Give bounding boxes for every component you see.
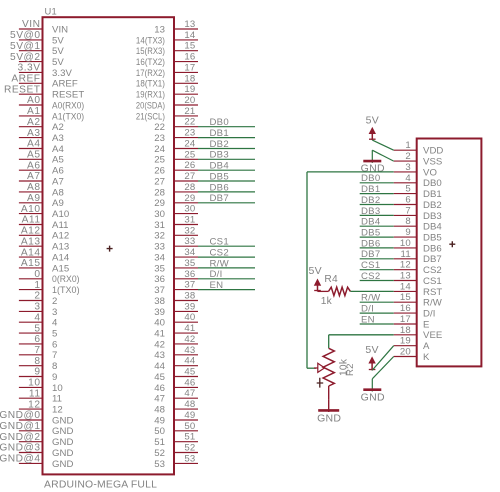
LCD pin 8 DB4 stub and labels bbox=[394, 216, 443, 232]
svg-text:32: 32 bbox=[154, 231, 165, 242]
svg-text:5V@0: 5V@0 bbox=[10, 30, 40, 41]
svg-text:R/W: R/W bbox=[210, 258, 230, 269]
svg-text:2: 2 bbox=[52, 296, 57, 307]
svg-text:46: 46 bbox=[184, 377, 195, 388]
pin 37 (right) stub and labels bbox=[154, 280, 198, 296]
svg-text:15(RX3): 15(RX3) bbox=[136, 46, 165, 57]
svg-text:17: 17 bbox=[400, 314, 411, 325]
svg-text:EN: EN bbox=[361, 314, 375, 325]
wire net CS1 from U1 pin 33 bbox=[198, 237, 255, 248]
svg-text:42: 42 bbox=[154, 339, 165, 350]
wire net D/I to LCD pin 16 bbox=[360, 304, 394, 315]
svg-text:33: 33 bbox=[184, 236, 195, 247]
svg-text:16: 16 bbox=[400, 303, 411, 314]
svg-text:2: 2 bbox=[34, 291, 40, 302]
pin 21 (right) stub and labels bbox=[136, 106, 198, 122]
svg-text:13: 13 bbox=[154, 24, 165, 35]
LCD pin 2 VSS stub and labels bbox=[394, 151, 443, 167]
pin A4 (left row 12) wire and labels bbox=[19, 139, 65, 155]
svg-text:28: 28 bbox=[154, 187, 165, 198]
pin 19 (right) stub and labels bbox=[136, 84, 198, 100]
pin 10 (left row 34) wire and labels bbox=[19, 378, 63, 394]
pin A1(TX0) (left row 9) wire and labels bbox=[19, 106, 84, 122]
svg-text:DB5: DB5 bbox=[210, 171, 229, 182]
svg-text:49: 49 bbox=[184, 410, 195, 421]
svg-text:5V: 5V bbox=[52, 35, 64, 46]
svg-text:1: 1 bbox=[405, 140, 411, 151]
svg-text:AREF: AREF bbox=[52, 79, 78, 90]
svg-text:GND@1: GND@1 bbox=[0, 421, 41, 432]
svg-text:30: 30 bbox=[154, 209, 165, 220]
svg-text:D/I: D/I bbox=[361, 304, 374, 315]
svg-text:7: 7 bbox=[52, 350, 57, 361]
svg-text:52: 52 bbox=[154, 448, 165, 459]
svg-text:5V@2: 5V@2 bbox=[10, 52, 40, 63]
svg-text:A4: A4 bbox=[52, 144, 64, 155]
svg-text:DB2: DB2 bbox=[423, 200, 442, 211]
LCD pin 14 RST stub and labels bbox=[394, 281, 443, 297]
svg-text:6: 6 bbox=[34, 334, 40, 345]
svg-text:A2: A2 bbox=[27, 117, 40, 128]
pin 36 (right) stub and labels bbox=[154, 269, 198, 285]
pin 26 (right) stub and labels bbox=[154, 160, 198, 176]
svg-text:30: 30 bbox=[184, 204, 195, 215]
svg-text:45: 45 bbox=[184, 367, 195, 378]
svg-text:17(RX2): 17(RX2) bbox=[136, 68, 165, 79]
pin 29 (right) stub and labels bbox=[154, 193, 198, 209]
svg-text:41: 41 bbox=[184, 323, 195, 334]
origin cross U1 bbox=[107, 246, 113, 252]
svg-text:18: 18 bbox=[400, 325, 411, 336]
svg-text:A1(TX0): A1(TX0) bbox=[52, 111, 84, 122]
svg-text:39: 39 bbox=[154, 307, 165, 318]
pin RESET (left row 7) wire and labels bbox=[4, 84, 84, 100]
svg-text:GND: GND bbox=[52, 459, 73, 470]
pin 46 (right) stub and labels bbox=[154, 377, 198, 393]
svg-text:A14: A14 bbox=[21, 247, 41, 258]
pin 38 (right) stub and labels bbox=[154, 291, 198, 307]
svg-text:DB7: DB7 bbox=[361, 249, 380, 260]
svg-text:RESET: RESET bbox=[4, 84, 40, 95]
wire net DB4 to LCD pin 8 bbox=[360, 217, 394, 228]
svg-text:A9: A9 bbox=[27, 193, 40, 204]
pin 52 (right) stub and labels bbox=[154, 443, 198, 459]
pin AREF (left row 6) wire and labels bbox=[11, 74, 78, 90]
svg-text:VO: VO bbox=[423, 167, 437, 178]
svg-text:A0(RX0): A0(RX0) bbox=[52, 100, 84, 111]
LCD pin 15 R/W stub and labels bbox=[394, 292, 443, 308]
pin A5 (left row 13) wire and labels bbox=[19, 150, 64, 166]
svg-text:43: 43 bbox=[154, 350, 165, 361]
pin 20 (right) stub and labels bbox=[136, 95, 198, 111]
svg-text:22: 22 bbox=[154, 122, 165, 133]
svg-text:DB6: DB6 bbox=[361, 238, 380, 249]
svg-text:8: 8 bbox=[34, 356, 40, 367]
svg-text:A6: A6 bbox=[27, 160, 40, 171]
LCD pin 19 A stub and labels bbox=[394, 336, 430, 352]
svg-text:GND: GND bbox=[52, 426, 73, 437]
svg-text:53: 53 bbox=[154, 459, 165, 470]
pin A14 (left row 22) wire and labels bbox=[19, 247, 70, 263]
svg-text:21: 21 bbox=[184, 106, 195, 117]
svg-text:5V: 5V bbox=[52, 46, 64, 57]
svg-text:22: 22 bbox=[184, 117, 195, 128]
wire net DB1 to LCD pin 5 bbox=[360, 184, 394, 195]
wire net R/W to LCD pin 15 bbox=[360, 293, 394, 304]
pin 25 (right) stub and labels bbox=[154, 149, 198, 165]
svg-text:A6: A6 bbox=[52, 166, 64, 177]
wire net DB1 from U1 pin 23 bbox=[198, 128, 255, 139]
svg-text:34: 34 bbox=[184, 247, 196, 258]
pin 12 (left row 36) wire and labels bbox=[19, 399, 63, 415]
pin 35 (right) stub and labels bbox=[154, 258, 198, 274]
pin 44 (right) stub and labels bbox=[154, 356, 198, 372]
svg-text:A15: A15 bbox=[52, 263, 69, 274]
pin 43 (right) stub and labels bbox=[154, 345, 198, 361]
LCD pin 6 DB2 stub and labels bbox=[394, 195, 442, 211]
svg-text:A7: A7 bbox=[27, 171, 40, 182]
svg-text:40: 40 bbox=[184, 312, 195, 323]
pin 2 (left row 26) wire and labels bbox=[19, 291, 57, 307]
svg-text:GND@0: GND@0 bbox=[0, 410, 41, 421]
pin A8 (left row 16) wire and labels bbox=[19, 182, 64, 198]
svg-text:5V: 5V bbox=[366, 115, 379, 127]
LCD module connector body bbox=[417, 139, 482, 367]
svg-text:A0: A0 bbox=[27, 95, 40, 106]
svg-text:10: 10 bbox=[400, 238, 411, 249]
pin 49 (right) stub and labels bbox=[154, 410, 198, 426]
svg-text:GND: GND bbox=[52, 437, 73, 448]
svg-text:15: 15 bbox=[400, 292, 411, 303]
wire net DB7 from U1 pin 29 bbox=[198, 193, 255, 204]
svg-text:DB1: DB1 bbox=[423, 189, 442, 200]
svg-text:16: 16 bbox=[184, 52, 195, 63]
origin cross LCD bbox=[449, 241, 455, 247]
svg-text:CS1: CS1 bbox=[361, 260, 380, 271]
svg-text:10: 10 bbox=[28, 378, 40, 389]
pin 53 (right) stub and labels bbox=[154, 453, 198, 469]
svg-text:14: 14 bbox=[184, 30, 196, 41]
svg-text:39: 39 bbox=[184, 301, 195, 312]
svg-text:VDD: VDD bbox=[423, 146, 443, 157]
pin 4 (left row 28) wire and labels bbox=[19, 312, 58, 328]
svg-text:GND: GND bbox=[317, 412, 341, 424]
pin 42 (right) stub and labels bbox=[154, 334, 198, 350]
svg-text:26: 26 bbox=[154, 166, 165, 177]
svg-text:20(SDA): 20(SDA) bbox=[136, 100, 165, 111]
pin 18 (right) stub and labels bbox=[136, 73, 198, 89]
svg-text:33: 33 bbox=[154, 242, 165, 253]
wire net DB2 to LCD pin 6 bbox=[360, 195, 394, 206]
svg-text:A1: A1 bbox=[27, 106, 40, 117]
LCD pin 5 DB1 stub and labels bbox=[394, 184, 442, 200]
ground GND below R2 bbox=[317, 400, 341, 425]
ground GND at LCD pin 20 bbox=[361, 379, 385, 404]
svg-text:9: 9 bbox=[52, 372, 57, 383]
pin A13 (left row 21) wire and labels bbox=[19, 236, 69, 252]
pin A7 (left row 15) wire and labels bbox=[19, 171, 64, 187]
svg-text:27: 27 bbox=[184, 171, 195, 182]
svg-text:A11: A11 bbox=[22, 215, 41, 226]
svg-text:14: 14 bbox=[400, 281, 412, 292]
svg-text:8: 8 bbox=[405, 216, 411, 227]
wire net EN from U1 pin 37 bbox=[198, 280, 255, 291]
pin GND (left row 38) wire and labels bbox=[0, 421, 73, 437]
pin GND (left row 40) wire and labels bbox=[0, 443, 73, 459]
pin 23 (right) stub and labels bbox=[154, 128, 198, 144]
svg-text:11: 11 bbox=[401, 249, 411, 260]
svg-text:3: 3 bbox=[34, 302, 40, 313]
svg-text:5V: 5V bbox=[308, 265, 321, 277]
ground GND at LCD pin 2 bbox=[361, 150, 385, 175]
wire net CS2 to LCD pin 13 bbox=[360, 271, 394, 282]
svg-text:1k: 1k bbox=[321, 296, 333, 307]
svg-text:3.3V: 3.3V bbox=[18, 63, 41, 74]
wire 5V to LCD pin 19 A bbox=[372, 346, 394, 371]
pin 3.3V (left row 5) wire and labels bbox=[18, 63, 73, 79]
svg-text:U1: U1 bbox=[45, 5, 57, 16]
wire VEE net from LCD pin 18 to R2 top bbox=[329, 335, 394, 349]
svg-text:18(TX1): 18(TX1) bbox=[136, 79, 165, 90]
svg-text:50: 50 bbox=[154, 426, 165, 437]
svg-text:20: 20 bbox=[400, 347, 411, 358]
svg-text:DB5: DB5 bbox=[361, 228, 380, 239]
wire net DB5 to LCD pin 9 bbox=[360, 228, 394, 239]
svg-text:7: 7 bbox=[34, 345, 40, 356]
LCD pin 4 DB0 stub and labels bbox=[394, 173, 442, 189]
svg-text:45: 45 bbox=[154, 372, 165, 383]
svg-text:16(TX2): 16(TX2) bbox=[136, 57, 165, 68]
pin 22 (right) stub and labels bbox=[154, 117, 198, 133]
svg-text:AREF: AREF bbox=[11, 74, 40, 85]
svg-text:VEE: VEE bbox=[423, 330, 442, 341]
svg-text:19: 19 bbox=[184, 84, 195, 95]
svg-text:DB6: DB6 bbox=[423, 243, 442, 254]
svg-text:DB0: DB0 bbox=[423, 178, 442, 189]
svg-text:36: 36 bbox=[154, 274, 165, 285]
svg-text:A12: A12 bbox=[21, 226, 41, 237]
svg-text:5: 5 bbox=[405, 184, 411, 195]
svg-text:51: 51 bbox=[154, 437, 165, 448]
svg-text:35: 35 bbox=[184, 258, 195, 269]
svg-text:DB5: DB5 bbox=[423, 233, 442, 244]
LCD pin 17 E stub and labels bbox=[394, 314, 430, 330]
svg-text:27: 27 bbox=[154, 176, 165, 187]
svg-text:VSS: VSS bbox=[423, 157, 442, 168]
svg-text:37: 37 bbox=[184, 280, 195, 291]
svg-text:DB4: DB4 bbox=[423, 222, 442, 233]
pin A9 (left row 17) wire and labels bbox=[19, 193, 64, 209]
wire net DB3 to LCD pin 7 bbox=[360, 206, 394, 217]
svg-text:20: 20 bbox=[184, 95, 195, 106]
svg-text:RST: RST bbox=[423, 287, 442, 298]
svg-text:4: 4 bbox=[52, 318, 58, 329]
svg-text:4: 4 bbox=[34, 312, 40, 323]
svg-text:GND@3: GND@3 bbox=[0, 443, 41, 454]
wire LCD pin 20 K to GND bbox=[372, 357, 393, 379]
wire net DB2 from U1 pin 24 bbox=[198, 139, 255, 150]
LCD pin 20 K stub and labels bbox=[394, 347, 430, 363]
LCD pin 3 VO stub and labels bbox=[394, 162, 437, 178]
svg-text:A5: A5 bbox=[27, 150, 40, 161]
svg-text:5V@1: 5V@1 bbox=[10, 41, 40, 52]
svg-text:DB6: DB6 bbox=[210, 182, 229, 193]
svg-text:DB3: DB3 bbox=[361, 206, 380, 217]
svg-text:ARDUINO-MEGA FULL: ARDUINO-MEGA FULL bbox=[44, 480, 157, 491]
svg-text:A3: A3 bbox=[27, 128, 40, 139]
pin A0(RX0) (left row 8) wire and labels bbox=[19, 95, 84, 111]
pin 5V (left row 2) wire and labels bbox=[10, 30, 64, 46]
pin 24 (right) stub and labels bbox=[154, 139, 198, 155]
svg-text:36: 36 bbox=[184, 269, 195, 280]
wire net EN to LCD pin 17 bbox=[360, 314, 394, 325]
LCD pin 16 D/I stub and labels bbox=[394, 303, 436, 319]
IC U1 ARDUINO-MEGA FULL main body bbox=[43, 17, 175, 474]
resistor R2 potentiometer 10k bbox=[314, 348, 356, 387]
svg-text:DB2: DB2 bbox=[361, 195, 380, 206]
wire net R/W from U1 pin 35 bbox=[198, 258, 255, 269]
svg-text:A9: A9 bbox=[52, 198, 64, 209]
wire net DB7 to LCD pin 11 bbox=[360, 249, 394, 260]
svg-text:12: 12 bbox=[400, 260, 411, 271]
wire R2 bottom to ground bbox=[328, 386, 330, 400]
svg-text:5: 5 bbox=[34, 323, 40, 334]
svg-text:A13: A13 bbox=[52, 242, 69, 253]
svg-text:GND@2: GND@2 bbox=[0, 432, 41, 443]
pin 5V (left row 3) wire and labels bbox=[10, 41, 64, 57]
svg-text:A13: A13 bbox=[21, 236, 41, 247]
svg-text:44: 44 bbox=[184, 356, 196, 367]
svg-text:29: 29 bbox=[184, 193, 195, 204]
pin GND (left row 39) wire and labels bbox=[0, 432, 73, 448]
pin 32 (right) stub and labels bbox=[154, 225, 198, 241]
svg-text:29: 29 bbox=[154, 198, 165, 209]
svg-text:1: 1 bbox=[34, 280, 40, 291]
wire VO net from LCD pin 3 to R2 wiper bbox=[307, 172, 394, 368]
svg-text:A7: A7 bbox=[52, 176, 64, 187]
svg-text:13: 13 bbox=[400, 271, 411, 282]
pin 41 (right) stub and labels bbox=[154, 323, 198, 339]
LCD pin 18 VEE stub and labels bbox=[394, 325, 443, 341]
pin 5 (left row 29) wire and labels bbox=[19, 323, 57, 339]
svg-text:DB4: DB4 bbox=[210, 161, 230, 172]
LCD pin 13 CS1 stub and labels bbox=[394, 271, 442, 287]
svg-text:34: 34 bbox=[154, 253, 165, 264]
pin 31 (right) stub and labels bbox=[154, 215, 198, 231]
pin 3 (left row 27) wire and labels bbox=[19, 302, 57, 318]
pin 11 (left row 35) wire and labels bbox=[19, 388, 62, 404]
svg-text:DB3: DB3 bbox=[210, 150, 229, 161]
LCD pin 10 DB6 stub and labels bbox=[394, 238, 442, 254]
svg-text:5V: 5V bbox=[365, 344, 378, 356]
svg-text:18: 18 bbox=[184, 73, 195, 84]
supply +5V symbol at LCD pin 1 bbox=[366, 115, 379, 141]
svg-text:A12: A12 bbox=[52, 231, 69, 242]
pin GND (left row 41) wire and labels bbox=[0, 454, 73, 470]
pin 39 (right) stub and labels bbox=[154, 301, 198, 317]
svg-text:31: 31 bbox=[154, 220, 165, 231]
wire net DB3 from U1 pin 25 bbox=[198, 150, 255, 161]
pin 33 (right) stub and labels bbox=[154, 236, 198, 252]
svg-text:A10: A10 bbox=[21, 204, 41, 215]
svg-text:DB3: DB3 bbox=[423, 211, 442, 222]
svg-text:13: 13 bbox=[184, 19, 195, 30]
svg-text:CS2: CS2 bbox=[423, 265, 442, 276]
pin 14 (right) stub and labels bbox=[136, 30, 198, 46]
pin 45 (right) stub and labels bbox=[154, 367, 198, 383]
svg-text:19(RX1): 19(RX1) bbox=[136, 90, 165, 101]
pin 1(TX0) (left row 25) wire and labels bbox=[19, 280, 80, 296]
svg-text:42: 42 bbox=[184, 334, 195, 345]
svg-text:0: 0 bbox=[34, 269, 40, 280]
svg-text:3: 3 bbox=[52, 307, 57, 318]
svg-text:25: 25 bbox=[154, 155, 165, 166]
wire net CS1 to LCD pin 12 bbox=[360, 260, 394, 271]
svg-text:A5: A5 bbox=[52, 155, 64, 166]
svg-text:R/W: R/W bbox=[423, 298, 443, 309]
pin 50 (right) stub and labels bbox=[154, 421, 198, 437]
svg-text:3: 3 bbox=[405, 162, 411, 173]
svg-text:37: 37 bbox=[154, 285, 165, 296]
svg-text:5V: 5V bbox=[52, 57, 64, 68]
svg-text:51: 51 bbox=[184, 432, 195, 443]
svg-text:A14: A14 bbox=[52, 253, 70, 264]
pin 5V (left row 4) wire and labels bbox=[10, 52, 64, 68]
pin 17 (right) stub and labels bbox=[136, 62, 198, 78]
svg-text:A10: A10 bbox=[52, 209, 69, 220]
pin 16 (right) stub and labels bbox=[136, 52, 198, 68]
supply +5V symbol at LCD pin 19 bbox=[365, 344, 378, 370]
svg-text:7: 7 bbox=[405, 205, 411, 216]
svg-text:DB1: DB1 bbox=[210, 128, 229, 139]
svg-text:GND@4: GND@4 bbox=[0, 454, 41, 465]
svg-text:9: 9 bbox=[34, 367, 40, 378]
svg-text:9: 9 bbox=[405, 227, 411, 238]
svg-text:A3: A3 bbox=[52, 133, 64, 144]
svg-text:50: 50 bbox=[184, 421, 195, 432]
svg-text:19: 19 bbox=[400, 336, 411, 347]
svg-text:GND: GND bbox=[361, 391, 385, 403]
svg-text:41: 41 bbox=[154, 329, 165, 340]
pin A11 (left row 19) wire and labels bbox=[19, 215, 69, 231]
pin 6 (left row 30) wire and labels bbox=[19, 334, 57, 350]
pin 40 (right) stub and labels bbox=[154, 312, 198, 328]
wire net DB5 from U1 pin 27 bbox=[198, 171, 255, 182]
svg-text:RESET: RESET bbox=[52, 90, 84, 101]
svg-text:DB2: DB2 bbox=[210, 139, 229, 150]
pin 15 (right) stub and labels bbox=[136, 41, 198, 57]
svg-text:38: 38 bbox=[154, 296, 165, 307]
wire 5V to LCD pin 1 bbox=[372, 140, 393, 150]
svg-text:5: 5 bbox=[52, 329, 57, 340]
svg-text:A4: A4 bbox=[27, 139, 40, 150]
svg-text:26: 26 bbox=[184, 160, 195, 171]
svg-text:12: 12 bbox=[52, 405, 63, 416]
svg-text:DB7: DB7 bbox=[423, 254, 442, 265]
svg-text:R/W: R/W bbox=[361, 293, 381, 304]
svg-text:E: E bbox=[423, 319, 429, 330]
svg-text:D/I: D/I bbox=[210, 269, 223, 280]
svg-text:A15: A15 bbox=[21, 258, 41, 269]
pin 13 (right) stub and labels bbox=[154, 19, 198, 35]
pin 28 (right) stub and labels bbox=[154, 182, 198, 198]
svg-text:52: 52 bbox=[184, 443, 195, 454]
svg-text:6: 6 bbox=[52, 339, 57, 350]
pin 34 (right) stub and labels bbox=[154, 247, 198, 263]
svg-text:2: 2 bbox=[405, 151, 411, 162]
pin 8 (left row 32) wire and labels bbox=[19, 356, 57, 372]
pin 48 (right) stub and labels bbox=[154, 399, 198, 415]
